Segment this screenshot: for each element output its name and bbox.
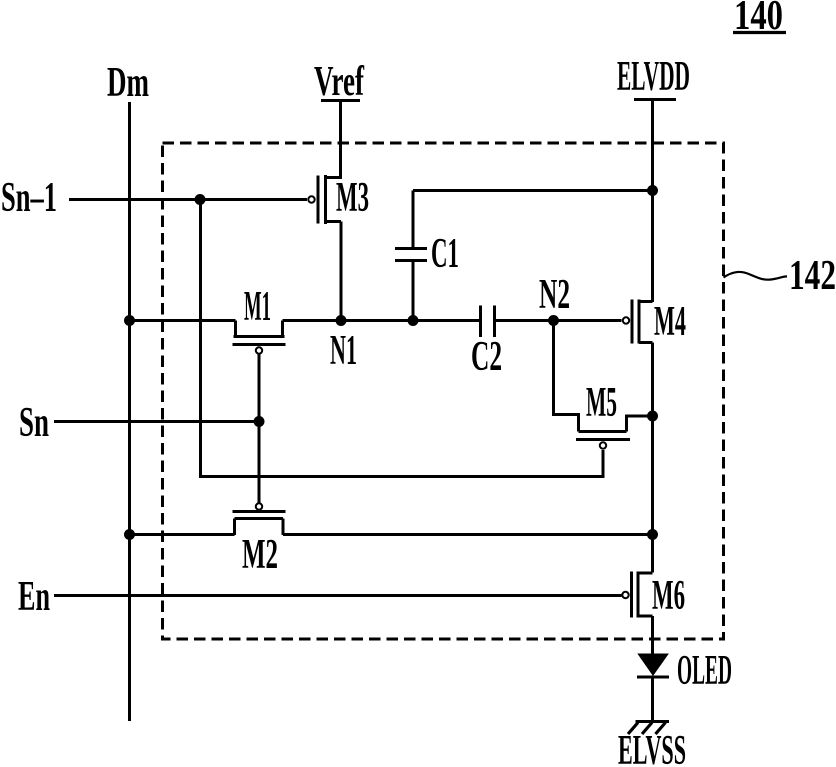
svg-text:Sn: Sn xyxy=(19,400,49,446)
svg-text:N2: N2 xyxy=(539,272,570,318)
svg-text:M6: M6 xyxy=(652,573,685,619)
svg-text:Sn–1: Sn–1 xyxy=(1,175,57,221)
svg-text:ELVSS: ELVSS xyxy=(618,728,686,767)
svg-text:140: 140 xyxy=(734,0,783,39)
svg-text:142: 142 xyxy=(789,253,836,299)
svg-text:OLED: OLED xyxy=(677,648,732,694)
svg-text:ELVDD: ELVDD xyxy=(617,54,690,100)
svg-text:En: En xyxy=(18,574,50,620)
svg-text:Dm: Dm xyxy=(107,60,149,106)
svg-text:M3: M3 xyxy=(336,175,369,221)
svg-text:M4: M4 xyxy=(654,299,686,345)
svg-text:M2: M2 xyxy=(242,532,278,578)
svg-text:Vref: Vref xyxy=(314,59,365,105)
svg-text:M5: M5 xyxy=(586,380,617,426)
svg-text:N1: N1 xyxy=(330,328,357,374)
svg-text:M1: M1 xyxy=(244,284,271,330)
svg-text:C2: C2 xyxy=(471,334,502,380)
svg-text:C1: C1 xyxy=(431,231,459,277)
